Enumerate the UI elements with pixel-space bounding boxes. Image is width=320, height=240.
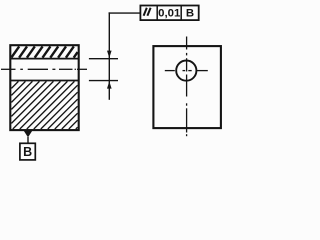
extension line upper [89, 58, 118, 60]
feature control frame box [140, 6, 198, 21]
hatching lower block [11, 81, 77, 129]
parallelism symbol // [144, 8, 151, 16]
svg-text:B: B [186, 8, 194, 20]
hole upper edge line [10, 58, 78, 60]
extension line lower [89, 80, 118, 82]
left section view outline [10, 45, 78, 130]
arrowhead down [107, 51, 112, 58]
arrowhead up [107, 81, 112, 88]
FCF divider 1 [156, 6, 158, 21]
svg-text:B: B [23, 145, 32, 159]
datum B stem [27, 137, 29, 143]
datum B triangle [24, 131, 32, 137]
hole centerline (dash-dot) [1, 68, 87, 70]
datum B frame [20, 143, 35, 160]
horizontal centerline (dash-dot) [165, 70, 208, 72]
leader horizontal line [109, 12, 141, 14]
hole circle [176, 61, 196, 81]
leader/dimension vertical line [108, 12, 110, 99]
hatching upper strip [11, 46, 77, 57]
svg-text:0,01: 0,01 [158, 8, 181, 20]
vertical centerline (dash-dot) [186, 37, 188, 137]
hole lower edge line [10, 80, 78, 82]
right end view outline [153, 46, 221, 128]
FCF divider 2 [180, 6, 182, 21]
